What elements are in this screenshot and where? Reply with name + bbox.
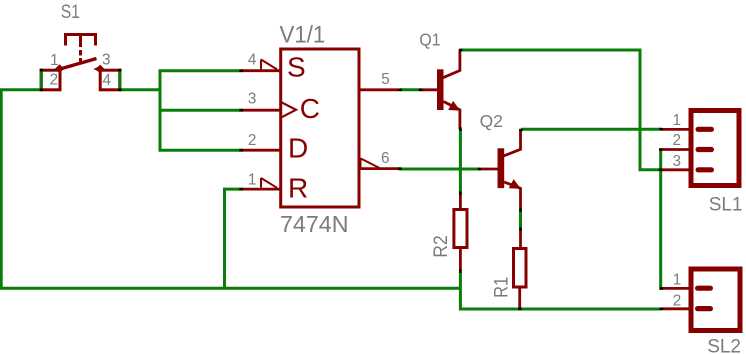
svg-text:V1/1: V1/1 xyxy=(280,22,326,49)
svg-text:R1: R1 xyxy=(492,277,513,298)
svg-text:1: 1 xyxy=(248,171,257,188)
svg-text:SL2: SL2 xyxy=(707,337,741,354)
svg-text:1: 1 xyxy=(672,112,681,129)
svg-text:1: 1 xyxy=(673,272,682,289)
svg-text:3: 3 xyxy=(672,153,681,170)
svg-text:2: 2 xyxy=(248,132,257,149)
svg-text:4: 4 xyxy=(248,51,257,68)
svg-text:2: 2 xyxy=(673,293,682,310)
svg-text:SL1: SL1 xyxy=(709,195,743,216)
svg-text:7474N: 7474N xyxy=(280,211,349,237)
svg-text:C: C xyxy=(300,93,320,124)
svg-text:1: 1 xyxy=(50,52,59,69)
svg-text:3: 3 xyxy=(102,52,111,69)
svg-text:3: 3 xyxy=(248,90,257,107)
svg-text:Q1: Q1 xyxy=(419,30,440,50)
svg-text:2: 2 xyxy=(50,71,59,88)
svg-text:R2: R2 xyxy=(431,235,452,257)
svg-text:S1: S1 xyxy=(61,2,80,23)
svg-text:S: S xyxy=(287,51,306,82)
svg-text:R: R xyxy=(288,173,308,204)
svg-text:6: 6 xyxy=(381,150,390,167)
svg-text:5: 5 xyxy=(381,71,390,88)
svg-text:2: 2 xyxy=(672,132,681,149)
svg-text:Q2: Q2 xyxy=(480,111,503,131)
svg-text:D: D xyxy=(288,132,308,163)
svg-text:4: 4 xyxy=(102,72,111,89)
